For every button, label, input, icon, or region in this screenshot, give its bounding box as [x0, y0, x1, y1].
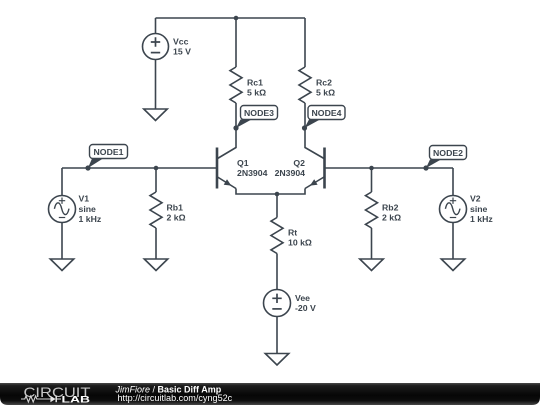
svg-text:Vee: Vee [295, 293, 310, 303]
transistor Q1 [217, 128, 236, 189]
wire Rb2 bottom lead [371, 228, 373, 259]
ground (V1) [50, 259, 74, 271]
logo resistor squiggle [21, 396, 50, 402]
wire top rail [156, 17, 306, 19]
junction dot (top rail / Rc1) [234, 16, 239, 21]
resistor Rc2 [299, 67, 311, 103]
voltage source Vee [264, 290, 291, 317]
resistor Rt [271, 218, 283, 254]
svg-text:Rb2: Rb2 [382, 202, 399, 212]
ground (Vee) [265, 354, 289, 366]
junction dot (Rb2 / base wire) [369, 166, 374, 171]
svg-text:Rt: Rt [288, 227, 297, 237]
svg-text:http://circuitlab.com/cyng52c: http://circuitlab.com/cyng52c [118, 393, 233, 403]
svg-text:V2: V2 [470, 194, 481, 204]
svg-text:2 kΩ: 2 kΩ [382, 212, 401, 222]
svg-text:2N3904: 2N3904 [237, 168, 268, 178]
resistor Rb1 [150, 192, 162, 228]
voltage source V1 [49, 196, 76, 223]
wire Rc1 top lead [235, 18, 237, 67]
wire Rt bottom lead [276, 254, 278, 290]
ground (Rb1) [144, 259, 168, 271]
svg-text:5 kΩ: 5 kΩ [316, 87, 335, 97]
wire Rc1 bottom lead [235, 103, 237, 128]
svg-text:V1: V1 [79, 194, 90, 204]
svg-text:Rb1: Rb1 [167, 202, 184, 212]
node NODE4 [302, 106, 345, 131]
wire Rb1 bottom lead [155, 228, 157, 259]
svg-text:NODE2: NODE2 [433, 148, 463, 158]
node NODE2 [423, 146, 466, 171]
ground (Vcc) [144, 109, 168, 121]
wire V1 riser [61, 168, 63, 196]
node NODE3 [233, 106, 277, 131]
wire Vee to ground [276, 317, 278, 354]
wire emitter bus [236, 189, 305, 195]
svg-text:NODE3: NODE3 [244, 108, 274, 118]
svg-text:NODE4: NODE4 [312, 108, 342, 118]
voltage source V2 [440, 196, 467, 223]
wire Rb2 top lead [371, 168, 373, 192]
svg-text:15 V: 15 V [173, 47, 191, 57]
voltage source Vcc [143, 34, 169, 60]
ground (V2) [441, 259, 465, 271]
svg-text:sine: sine [79, 204, 97, 214]
wire Vcc top lead [155, 18, 157, 34]
svg-text:Vcc: Vcc [173, 37, 189, 47]
node NODE1 [85, 145, 127, 171]
svg-text:Q1: Q1 [237, 158, 249, 168]
svg-text:Q2: Q2 [293, 158, 305, 168]
svg-text:1 kHz: 1 kHz [79, 214, 102, 224]
resistor Rb2 [366, 192, 378, 228]
ground (Rb2) [360, 259, 384, 271]
wire base right [326, 167, 454, 169]
wire V2 to ground [452, 223, 454, 260]
svg-text:Rc1: Rc1 [247, 77, 263, 87]
transistor Q2 [305, 128, 325, 189]
svg-text:5 kΩ: 5 kΩ [247, 87, 266, 97]
junction dot (emitter bus / Rt) [275, 192, 280, 197]
wire Vcc bottom lead [155, 60, 157, 110]
svg-text:1 kHz: 1 kHz [470, 214, 493, 224]
wire Rc2 top lead [304, 18, 306, 67]
wire V1 to ground [61, 223, 63, 260]
svg-text:LAB: LAB [62, 394, 91, 405]
junction dot (Rb1 / base wire) [154, 166, 159, 171]
svg-text:10 kΩ: 10 kΩ [288, 237, 312, 247]
svg-text:-20 V: -20 V [295, 303, 316, 313]
wire V2 riser [452, 168, 454, 196]
svg-text:Rc2: Rc2 [316, 77, 332, 87]
logo diode [50, 396, 55, 402]
wire Rt top lead [276, 194, 278, 218]
resistor Rc1 [230, 67, 242, 103]
svg-text:sine: sine [470, 204, 488, 214]
svg-text:2N3904: 2N3904 [275, 168, 306, 178]
svg-text:NODE1: NODE1 [94, 147, 124, 157]
wire Rc2 bottom lead [304, 103, 306, 128]
wire base left [62, 167, 216, 169]
svg-text:2 kΩ: 2 kΩ [167, 212, 186, 222]
wire Rb1 top lead [155, 168, 157, 192]
